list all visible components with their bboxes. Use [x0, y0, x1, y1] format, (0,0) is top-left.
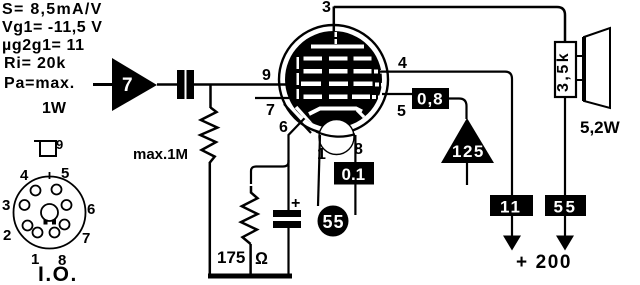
svg-text:5: 5 [61, 165, 69, 182]
grid box left white dashes [297, 57, 300, 99]
envelope [279, 25, 388, 134]
speaker LS1 [576, 28, 621, 137]
svg-text:9: 9 [262, 67, 271, 84]
svg-text:0,8: 0,8 [417, 90, 444, 109]
ground bus wire [208, 274, 292, 279]
svg-text:4: 4 [20, 167, 29, 184]
svg-text:0.1: 0.1 [342, 165, 366, 184]
wire pin6 branch [251, 113, 310, 185]
box 0.1 [334, 162, 374, 185]
grid row 1 [304, 57, 372, 61]
svg-text:11: 11 [500, 198, 522, 217]
cathode chevron white [309, 109, 362, 115]
wire pin7 stub [255, 97, 289, 99]
svg-text:µg2g1= 11: µg2g1= 11 [2, 37, 85, 54]
svg-text:9: 9 [56, 137, 63, 152]
socket key square pin 9 [34, 137, 63, 156]
svg-text:3: 3 [2, 197, 10, 214]
internal diagonal to heater [296, 107, 312, 125]
wire grid to pin 9 [194, 83, 288, 86]
svg-text:max.1M: max.1M [133, 146, 188, 163]
wire pin4 to right [380, 72, 512, 195]
wire pin5 [382, 93, 412, 95]
wire drop to R1 [209, 85, 212, 109]
svg-text:+ 200: + 200 [516, 252, 572, 273]
socket center hole [41, 204, 58, 221]
envelope bottom arc redraw [316, 132, 355, 137]
wire pin1 to 55 circle [318, 135, 320, 206]
capacitor C1 coupling [177, 70, 194, 99]
svg-text:Ω: Ω [255, 249, 268, 268]
grid row 4 [304, 95, 382, 100]
anode bar white [311, 45, 364, 49]
arrow down left [503, 216, 521, 251]
svg-text:6: 6 [279, 119, 288, 136]
amplifier triangle U1 pin 7 [112, 58, 157, 111]
box 0,8 [412, 88, 449, 109]
svg-text:Ri= 20k: Ri= 20k [4, 55, 66, 72]
svg-text:2: 2 [3, 227, 11, 244]
arrow down right [556, 216, 574, 251]
wire 0,8 to triangle [449, 99, 467, 120]
box 11 [490, 195, 533, 217]
svg-text:7: 7 [82, 230, 90, 247]
svg-text:3,5k: 3,5k [555, 51, 572, 92]
svg-text:6: 6 [87, 201, 95, 218]
svg-text:55: 55 [554, 198, 578, 217]
pin3 internal white dashes [335, 32, 338, 37]
svg-text:3: 3 [322, 0, 331, 16]
capacitor C2 electrolytic [273, 166, 301, 276]
socket outline I.O. [14, 172, 86, 249]
socket pins 1-8 [20, 185, 72, 238]
svg-text:125: 125 [452, 142, 485, 161]
svg-text:1W: 1W [42, 100, 67, 117]
svg-text:55: 55 [323, 212, 345, 232]
tube V1 [255, 0, 407, 163]
grid row 2 [304, 69, 384, 74]
svg-text:S= 8,5mA/V: S= 8,5mA/V [2, 1, 103, 18]
socket pin labels [2, 165, 95, 269]
svg-text:175: 175 [217, 248, 245, 267]
internal diagonal right white [357, 110, 371, 124]
resistor R3 3,5k [555, 42, 576, 97]
svg-text:5: 5 [397, 103, 406, 120]
wire pin3 top [333, 7, 336, 32]
wire R1 to bus [209, 162, 212, 276]
node 55 circle [318, 206, 349, 237]
resistor R2 175 ohm [217, 186, 268, 276]
svg-text:7: 7 [266, 102, 275, 119]
wire input [93, 83, 113, 86]
wire pin3 top horizontal [334, 7, 565, 42]
svg-text:7: 7 [122, 75, 133, 96]
svg-text:+: + [291, 195, 300, 212]
wire resistor to 55 box [564, 97, 566, 195]
svg-text:Pa=max.: Pa=max. [4, 75, 75, 92]
wire pin8 down [354, 135, 356, 215]
resistor R1 max.1M [133, 108, 217, 164]
heater circle [319, 120, 354, 155]
box 55 right [545, 195, 586, 217]
triangle 125 [441, 118, 494, 185]
wire amp to C1 [157, 83, 177, 86]
grid row 3 [301, 82, 384, 87]
svg-text:Vg1= -11,5 V: Vg1= -11,5 V [2, 19, 102, 36]
svg-text:4: 4 [398, 55, 407, 72]
svg-text:I.O.: I.O. [38, 263, 78, 285]
svg-text:5,2W: 5,2W [580, 118, 621, 137]
